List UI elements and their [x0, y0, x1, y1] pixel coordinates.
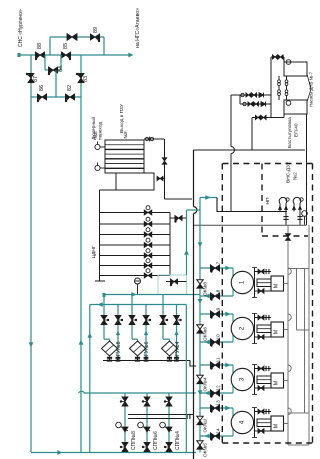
svg-text:СПП№8: СПП№8: [131, 431, 137, 450]
svg-text:СНС «Нурлино»: СНС «Нурлино»: [18, 9, 24, 47]
svg-text:ФГУ№8: ФГУ№8: [116, 341, 122, 360]
svg-text:10: 10: [216, 334, 222, 340]
svg-text:М: М: [274, 381, 280, 385]
svg-text:переход: переход: [99, 122, 104, 140]
svg-text:89: 89: [93, 27, 99, 33]
svg-text:№2: №2: [293, 172, 299, 180]
svg-text:83: 83: [83, 76, 89, 82]
svg-text:87: 87: [33, 76, 39, 82]
svg-text:ОК№6: ОК№6: [203, 327, 208, 341]
svg-text:86: 86: [39, 85, 45, 91]
svg-text:9: 9: [216, 307, 222, 310]
svg-text:ЕП-40: ЕП-40: [294, 123, 300, 137]
svg-text:НП: НП: [265, 197, 271, 204]
svg-text:12: 12: [216, 385, 222, 391]
svg-text:Бастыгуловка: Бастыгуловка: [287, 117, 293, 148]
svg-text:ФГУ№6: ФГУ№6: [144, 341, 150, 360]
svg-text:СПП№6: СПП№6: [153, 431, 159, 450]
svg-text:ОК№8: ОК№8: [203, 282, 208, 296]
svg-text:М: М: [274, 424, 280, 428]
svg-text:М: М: [274, 330, 280, 334]
svg-text:Дюкерный: Дюкерный: [90, 117, 97, 140]
svg-text:88: 88: [37, 43, 43, 49]
svg-text:84: 84: [58, 66, 64, 72]
svg-text:85: 85: [63, 43, 69, 49]
svg-text:ОК№4: ОК№4: [203, 377, 208, 391]
svg-text:82: 82: [67, 85, 73, 91]
svg-text:ФГУ№4: ФГУ№4: [175, 341, 181, 360]
svg-text:на НГС«Атаево»: на НГС«Атаево»: [135, 8, 141, 48]
svg-text:СПП№4: СПП№4: [175, 431, 181, 450]
svg-text:Выход в ПЗУ: Выход в ПЗУ: [119, 103, 125, 133]
svg-text:ОК№2: ОК№2: [203, 418, 208, 432]
svg-text:ЦДНГ: ЦДНГ: [91, 245, 97, 258]
svg-text:М: М: [274, 284, 280, 288]
svg-text:14: 14: [216, 428, 222, 434]
svg-text:11: 11: [216, 357, 222, 362]
svg-text:7: 7: [216, 261, 222, 264]
svg-text:ОК№5: ОК№5: [203, 443, 208, 457]
svg-text:8: 8: [216, 289, 222, 292]
svg-text:ВНС-ДЗУ: ВНС-ДЗУ: [286, 161, 292, 183]
svg-text:13: 13: [216, 400, 222, 406]
svg-text:Насосы ДНБ №-7: Насосы ДНБ №-7: [309, 71, 314, 107]
